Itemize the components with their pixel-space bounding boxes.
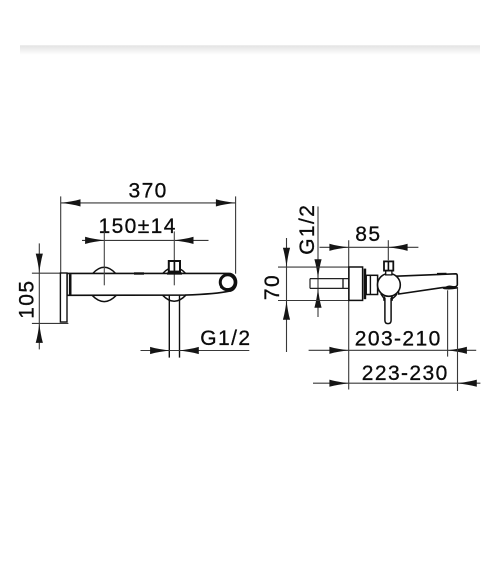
handle neck right [391,294,397,300]
knob square (front) [169,261,180,272]
supply nipple bottom line [310,287,349,289]
svg-text:223-230: 223-230 [362,362,449,385]
dim 70 line [286,238,288,352]
spout (side) [396,274,457,294]
dim 370 line [61,202,236,204]
dim 203-210 arrow right [448,347,467,354]
knob square (side) [384,261,393,270]
svg-text:G1/2: G1/2 [200,327,251,350]
knob stem mark right [175,272,177,275]
dim 70 ext line bottom [278,300,349,302]
escutcheon arc top right [163,267,186,273]
dim 223-230 arrow right [458,380,477,387]
spout top thick mark [134,272,144,274]
dim 70 arrow bottom [283,301,290,320]
wall line [348,240,350,389]
dim 203-210 arrow left [329,347,348,354]
dim 150±14 line [82,239,209,241]
handle lever [385,298,391,324]
dim 105 ext line bottom [32,322,69,324]
cartridge circle (side) [378,274,401,297]
outlet circle [220,275,235,290]
dim 150±14 arrow left [85,237,104,244]
top shadow band [20,45,480,55]
dim 105 ext line top [32,272,61,274]
svg-text:203-210: 203-210 [355,328,442,351]
bar top thick mark under knob [167,272,182,274]
escutcheon arc bottom right [163,295,186,301]
supply nipple nut [342,279,344,289]
body tube (side) [366,275,377,294]
supply pipe right line [179,296,181,358]
dim 203-210 line [309,349,477,351]
dim 85 ext line right [387,240,389,260]
dim 70 ext line top [278,266,349,268]
dim G1/2 arrow left [150,347,169,354]
centerline right [173,231,175,285]
svg-text:70: 70 [261,274,284,300]
dim 370 ext line right [235,196,237,273]
svg-text:G1/2: G1/2 [296,204,319,255]
dim G1/2 arrow top [314,259,321,278]
spout bold left end [69,274,72,295]
knob stem (side) [386,271,392,275]
dim 150±14 arrow right [174,237,193,244]
dim G1/2 line (front) [141,350,250,352]
dim G1/2 line (side) [317,207,319,318]
handle neck left [381,294,385,300]
svg-text:150±14: 150±14 [99,215,177,238]
dim 370 ext line left [60,196,62,273]
supply nipple top line [310,278,349,280]
spout body [67,273,237,295]
dim 223-230 ext line right [457,287,459,391]
handle tab right [391,296,393,300]
dim G1/2 arrow bottom [314,288,321,307]
knob square mid divider [173,261,175,272]
escutcheon arc bottom left [92,295,116,301]
dim G1/2 arrow right [180,347,199,354]
flange (side) [364,269,367,300]
dim 105 line [38,243,40,349]
wall plate (side) [349,267,363,300]
dim 85 arrow left [329,244,348,251]
centerline left [103,231,105,285]
dim 85 arrow right [388,244,407,251]
dim 223-230 arrow left [329,380,348,387]
svg-text:105: 105 [16,280,39,319]
dim 223-230 line [313,382,480,384]
spout top thick mark (side) [437,273,447,275]
svg-text:370: 370 [129,180,168,203]
supply nipple end [309,279,311,289]
outlet blob (side) [443,285,458,289]
svg-text:85: 85 [355,223,381,246]
dim 203-210 ext line right [447,290,449,356]
outlet circle bottom thickening [221,286,235,289]
knob inner line (side) [387,261,389,270]
dim 105 arrow bottom [36,324,43,343]
dim 85 line [320,246,419,248]
supply pipe left line [168,296,170,358]
body tube divider [369,275,371,294]
handle tab left [383,296,385,300]
escutcheon arc top left [93,267,116,273]
dim 370 arrow left [61,199,80,206]
wall plate (front) [60,273,67,322]
dim 70 arrow top [283,248,290,267]
dim 105 arrow top [36,254,43,273]
dim 370 arrow right [216,199,235,206]
knob stem mark left [171,272,173,275]
